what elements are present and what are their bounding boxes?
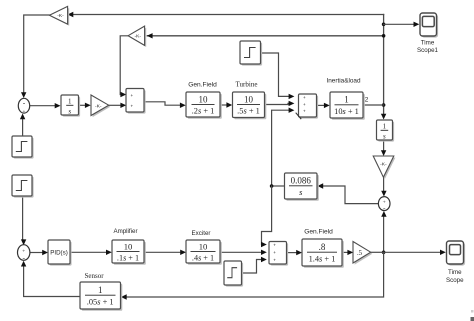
wire mux M1 output to Inertia&load <box>317 103 330 108</box>
wire sum block S1 to Gen.Field <box>144 102 185 108</box>
block 0.086/s <box>285 173 319 201</box>
wire sum1 output to integrator <box>30 103 61 108</box>
corner speck <box>471 310 474 321</box>
svg-text:+: + <box>130 104 133 109</box>
wire PID to Amplifier <box>70 250 112 255</box>
label Amplifier <box>113 228 137 235</box>
wire gain K4 to sum S3 top <box>381 177 386 196</box>
wire Inertia&load output to bus <box>363 104 383 106</box>
step Step1 (left upper) <box>12 136 34 159</box>
wire gain K3 to sum block S1 input 2 <box>109 103 127 108</box>
wire integrator2 to gain K4 <box>381 140 386 156</box>
wire Sensor output to sum S2 bottom <box>21 261 80 297</box>
wire second feedback line to gain K2 <box>147 33 384 38</box>
wire right vertical bus x=383.6 <box>381 15 386 120</box>
gain K4 (down-pointing) <box>373 156 395 179</box>
svg-text:Turbine: Turbine <box>236 81 258 89</box>
svg-text:Gen.Field: Gen.Field <box>188 82 217 89</box>
annotation faint 2 <box>365 97 369 104</box>
block Amplifier 10/(.1s+1) <box>112 240 146 265</box>
svg-text:+: + <box>303 109 306 114</box>
wire rotor-angle feed to mux M1 input 3 <box>272 108 295 187</box>
svg-text:s: s <box>299 188 302 197</box>
junction dot at gain K2 tap <box>382 34 386 38</box>
sum S1 (left circle) <box>18 98 29 115</box>
gain K1 (top-left feedback, left-pointing) <box>49 6 69 25</box>
svg-text:10: 10 <box>124 242 133 252</box>
block Exciter 10/(.4s+1) <box>186 240 222 265</box>
wire sum S3 output to 0.086 block <box>317 183 378 203</box>
integrator2 1/s <box>377 120 395 142</box>
mux M1 bottom diagonal tick <box>296 113 302 119</box>
sum S2 (bottom-left circle) <box>18 245 30 262</box>
step Step2 (top middle) <box>240 41 262 66</box>
svg-text:.1s + 1: .1s + 1 <box>117 253 139 262</box>
svg-text:.2s + 1: .2s + 1 <box>192 107 215 116</box>
step Step4 (bottom) <box>224 261 243 287</box>
mux M1 (rectangular sum, 3 inputs) <box>299 94 319 119</box>
junction dot on 0.086 bus <box>270 184 274 188</box>
svg-text:PID(s): PID(s) <box>50 250 68 257</box>
svg-text:.4s + 1: .4s + 1 <box>192 253 214 262</box>
svg-text:Amplifier: Amplifier <box>113 228 137 235</box>
block Gen.Field 10/(.2s+1) <box>186 92 222 119</box>
svg-text:10s + 1: 10s + 1 <box>334 107 359 116</box>
svg-text:s: s <box>383 132 386 140</box>
svg-text:Time: Time <box>448 269 462 276</box>
label Gen.Field <box>188 82 217 89</box>
svg-text:-K-: -K- <box>380 161 387 167</box>
scope Time Scope <box>447 241 466 266</box>
svg-text:.8: .8 <box>319 242 326 252</box>
svg-text:10: 10 <box>244 94 254 104</box>
gain K2 (second feedback, left-pointing) <box>128 26 146 47</box>
svg-text:+: + <box>303 102 306 107</box>
label Turbine <box>236 81 258 89</box>
block Turbine 10/(.5s+1) <box>233 92 267 119</box>
svg-text:1.4s + 1: 1.4s + 1 <box>309 254 336 263</box>
sum S3 (right circle) <box>378 197 390 213</box>
label Gen.Field (bottom) <box>304 229 333 236</box>
wire top feedback line to gain K1 <box>68 12 384 17</box>
svg-text:Gen.Field: Gen.Field <box>304 229 333 236</box>
svg-text:Exciter: Exciter <box>192 230 211 237</box>
junction dot at gain .5 output <box>382 251 386 255</box>
wire junction to Time Scope <box>384 250 446 255</box>
wire step Step2 to mux M1 input 1 <box>261 53 295 99</box>
wire step Step1 up to sum S1 bottom <box>20 114 25 136</box>
sum block S4 (rectangular, 3 inputs) <box>269 242 288 266</box>
label Inertia&load <box>326 78 361 85</box>
svg-text:10: 10 <box>199 242 208 252</box>
block Gen.Field2 .8/(1.4s+1) <box>302 239 344 268</box>
svg-text:+: + <box>22 109 25 115</box>
wire to Time Scope1 <box>384 22 420 27</box>
svg-text:+: + <box>303 95 306 100</box>
svg-text:-K-: -K- <box>95 103 102 109</box>
wire Turbine to mux M1 input 2 <box>265 101 295 106</box>
svg-text:-K-: -K- <box>135 33 142 39</box>
block PID(s) <box>48 240 72 266</box>
wire sum S4 output to Gen.Field2 <box>287 250 302 255</box>
junction dot at inertia output <box>382 103 386 107</box>
wire Amplifier to Exciter <box>144 250 186 255</box>
wire step Step4 to sum S4 input 3 <box>242 257 267 273</box>
scope Time Scope1 <box>420 13 438 38</box>
svg-text:1: 1 <box>383 123 387 131</box>
svg-text:2: 2 <box>365 97 369 104</box>
wire Gen.Field to Turbine <box>220 102 232 107</box>
wire gain .5 output to junction <box>371 251 384 253</box>
svg-text:+: + <box>130 93 133 98</box>
wire power output up into sum S3 bottom <box>381 211 386 252</box>
wire Exciter to sum S4 input 2 <box>220 250 267 255</box>
svg-text:+: + <box>273 258 276 263</box>
gain K3 (right-pointing) <box>91 95 110 117</box>
svg-text:+: + <box>273 243 276 248</box>
svg-text:Sensor: Sensor <box>84 272 104 280</box>
svg-text:.5s + 1: .5s + 1 <box>237 107 260 116</box>
svg-text:Scope1: Scope1 <box>417 47 439 54</box>
wire bottom feedback to Sensor <box>121 252 384 299</box>
wire integrator to gain K3 <box>79 103 91 108</box>
block Inertia&load 1/(10s+1) <box>330 92 365 120</box>
svg-text:Inertia&load: Inertia&load <box>326 78 361 85</box>
integrator 1/s <box>61 95 80 117</box>
label Time Scope <box>446 269 464 284</box>
wire gain K2 output down to sum block S1 input 1 <box>120 36 128 97</box>
svg-text:Time: Time <box>421 40 435 47</box>
wire bus down to sum S4 input 1 <box>261 186 272 247</box>
wire sum S2 output to PID <box>30 250 48 255</box>
block Sensor 1/(.05s+1) <box>80 282 122 311</box>
svg-text:+: + <box>273 250 276 255</box>
svg-text:-K-: -K- <box>57 13 64 19</box>
svg-text:1: 1 <box>98 285 103 295</box>
svg-text:s: s <box>68 107 71 115</box>
svg-text:.05s + 1: .05s + 1 <box>87 297 114 306</box>
junction dot at scope1 tap <box>382 23 386 27</box>
wire 0.086 output to left bus <box>272 185 285 187</box>
svg-text:1: 1 <box>344 95 349 105</box>
wire step Step3 down to sum S2 top <box>21 196 26 245</box>
label Sensor <box>84 272 104 280</box>
svg-text:.5: .5 <box>357 250 363 257</box>
label Time Scope1 <box>417 40 439 55</box>
step Step3 (left lower) <box>12 175 34 198</box>
svg-text:Scope: Scope <box>446 277 464 284</box>
svg-text:10: 10 <box>199 94 209 104</box>
label Exciter <box>192 230 211 237</box>
svg-text:0.086: 0.086 <box>291 176 312 186</box>
gain G5 .5 (right-pointing) <box>353 242 372 265</box>
sum block S1 (rectangular, 2 inputs) <box>126 89 146 114</box>
svg-text:1: 1 <box>68 98 72 106</box>
wire gain K1 output to sum1 top <box>21 15 49 98</box>
wire Gen.Field2 to gain .5 <box>342 250 353 255</box>
